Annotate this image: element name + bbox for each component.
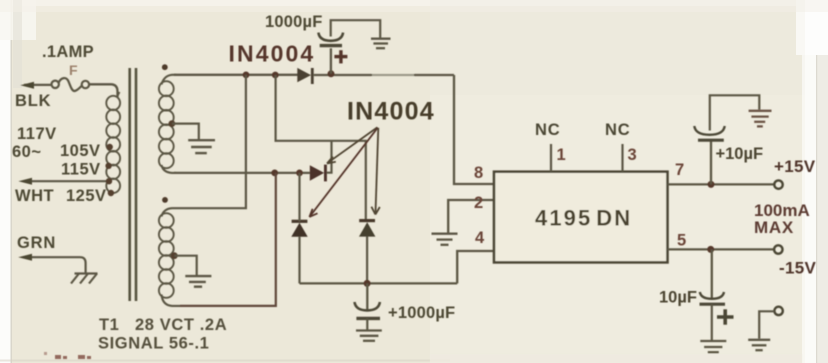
node pin5 cap junction [707, 246, 714, 253]
wire minus bus [300, 282, 458, 284]
svg-text:F: F [69, 62, 78, 78]
diode D1 IN4004 [297, 68, 313, 84]
wire P top rail (secondary top to D1 anode) [174, 74, 298, 76]
svg-text:IN4004: IN4004 [229, 41, 316, 67]
primary tap dot 115V [105, 163, 111, 169]
svg-text:8: 8 [474, 164, 483, 182]
svg-text:7: 7 [675, 161, 684, 179]
wire pin 7 to +15V terminal [668, 183, 775, 185]
wire node P1 down to lower secondary top [180, 75, 246, 208]
svg-text:WHT: WHT [15, 187, 54, 205]
wire GRN lead [24, 257, 86, 273]
wire node Q1 down to lower secondary bottom [180, 173, 276, 306]
wire center tap upper to ground [172, 124, 199, 139]
diode D4 IN4004 (vertical) [359, 221, 375, 237]
wire D3 anode down to minus bus [298, 237, 300, 284]
svg-text:105V: 105V [60, 142, 101, 160]
svg-text:117V: 117V [17, 125, 57, 143]
ground (lower secondary tap) [185, 276, 211, 287]
svg-text:60~: 60~ [12, 143, 42, 161]
transformer T1 primary winding [106, 92, 120, 193]
wire node Q2 down to D3 cathode [298, 173, 300, 222]
svg-text:IN4004: IN4004 [347, 98, 435, 126]
diode D3 IN4004 (vertical) [291, 221, 307, 237]
lower secondary center tap dot [171, 252, 178, 259]
op-amp/regulator U1 4195DN body [494, 172, 668, 263]
svg-text:+10µF: +10µF [716, 145, 764, 163]
transformer T1 upper secondary winding [159, 81, 174, 168]
arrow WHT lead [18, 178, 32, 185]
svg-text:.1AMP: .1AMP [42, 43, 94, 61]
diode D2 IN4004 [310, 165, 327, 182]
svg-text:125V: 125V [66, 187, 107, 205]
svg-text:GRN: GRN [17, 234, 56, 252]
wire +raw to IC pin 8 [454, 75, 494, 184]
wire C1 top to ground [331, 20, 381, 37]
fuse F .1AMP [52, 78, 90, 91]
svg-text:1000µF: 1000µF [265, 13, 323, 31]
ground (pin 2) [432, 234, 458, 245]
node P2 [272, 72, 279, 79]
wire pin 5 to -15V terminal [668, 248, 775, 250]
ground (C4) [700, 341, 726, 352]
capacitor C1 polarity plus [334, 50, 347, 63]
capacitor C4 10uF plates [700, 292, 726, 304]
svg-text:4: 4 [475, 229, 485, 247]
wire C2 to ground [366, 318, 368, 329]
wire minus bus up to IC pin 4 [457, 251, 493, 283]
phase dot upper secondary [162, 64, 168, 70]
pin 3 lead [621, 144, 623, 172]
primary tap dot 105V [107, 144, 113, 150]
svg-text:10µF: 10µF [659, 289, 697, 307]
scan artifact marks bottom left [44, 352, 91, 359]
node pin7 cap junction [708, 181, 715, 188]
leader arrow to D2 [327, 127, 377, 163]
terminal -15V [774, 245, 782, 253]
upper secondary center tap dot [169, 120, 176, 127]
svg-text:+1000µF: +1000µF [388, 304, 455, 322]
svg-text:115V: 115V [61, 161, 101, 179]
transformer T1 lower secondary winding [159, 213, 174, 298]
capacitor C3 +10uF plates [694, 126, 724, 140]
wire center tap lower to ground [174, 256, 196, 275]
terminal +15V [774, 180, 782, 188]
capacitor C3 +10uF lower lead [710, 141, 712, 184]
capacitor C1 1000uF plates [318, 33, 343, 46]
svg-text:T1 28 VCT .2A: T1 28 VCT .2A [99, 316, 227, 334]
wire Q rail (secondary bottom to D2 anode) [174, 172, 310, 174]
ground (common terminal) [748, 340, 770, 350]
arrow GRN lead [18, 254, 32, 261]
wire C4 to ground [711, 304, 713, 340]
svg-text:MAX: MAX [754, 218, 794, 237]
ground (upper secondary tap) [188, 140, 215, 153]
chassis ground (GRN) [71, 274, 98, 284]
svg-text:SIGNAL 56-.1: SIGNAL 56-.1 [98, 335, 209, 353]
lower secondary bottom lead [162, 295, 181, 306]
node P1 [243, 72, 250, 79]
node Q1 [271, 170, 278, 177]
node minus bus [364, 280, 371, 287]
arrow BLK lead [20, 82, 34, 89]
pin 1 lead [550, 144, 552, 172]
svg-text:-15V: -15V [779, 259, 816, 278]
transformer core [130, 68, 136, 301]
capacitor C1 1000uF lower lead [330, 48, 332, 74]
wire IC pin 2 to ground [448, 200, 493, 233]
svg-text:3: 3 [628, 146, 637, 164]
svg-text:5: 5 [677, 232, 686, 250]
wire D4 anode down to minus bus node [366, 236, 368, 283]
wire common terminal to ground [759, 311, 774, 338]
capacitor C2 +1000uF plates [355, 302, 381, 318]
wire C3 top to ground [710, 95, 760, 130]
lower secondary top lead [162, 208, 181, 216]
svg-text:NC: NC [535, 121, 560, 139]
ground (C2) [356, 331, 382, 341]
wire WHT lead to 125V tap [25, 180, 108, 182]
phase dot lower secondary [162, 197, 168, 203]
svg-text:+15V: +15V [774, 157, 816, 176]
capacitor C4 polarity plus [717, 309, 734, 324]
(faded scan segment overlay added after wire) [314, 74, 454, 76]
svg-text:4195 DN: 4195 DN [535, 206, 632, 231]
leader arrow to D3 [309, 128, 377, 217]
node Q2 [296, 170, 303, 177]
terminal common output [774, 307, 782, 315]
node +raw (cap junction) [328, 70, 335, 77]
wire node P2 jog down to D2 and D4 cathodes [276, 75, 366, 220]
wire BLK line input [24, 84, 118, 97]
ground (C3) [749, 111, 772, 127]
capacitor C2 +1000uF top lead [366, 283, 368, 310]
svg-text:NC: NC [605, 121, 630, 139]
upper secondary bottom lead [162, 165, 177, 173]
primary tap dot 125V [108, 190, 114, 196]
capacitor C4 10uF top lead [711, 249, 713, 298]
primary tap dot WHT [106, 178, 112, 184]
svg-text:2: 2 [474, 194, 483, 212]
upper secondary top lead [162, 75, 177, 85]
svg-text:BLK: BLK [15, 92, 51, 110]
wire branch down to D2 cathode [327, 141, 332, 173]
ground (C1) [371, 39, 391, 49]
leader arrow to D4 [371, 128, 379, 215]
svg-text:1: 1 [557, 146, 566, 164]
